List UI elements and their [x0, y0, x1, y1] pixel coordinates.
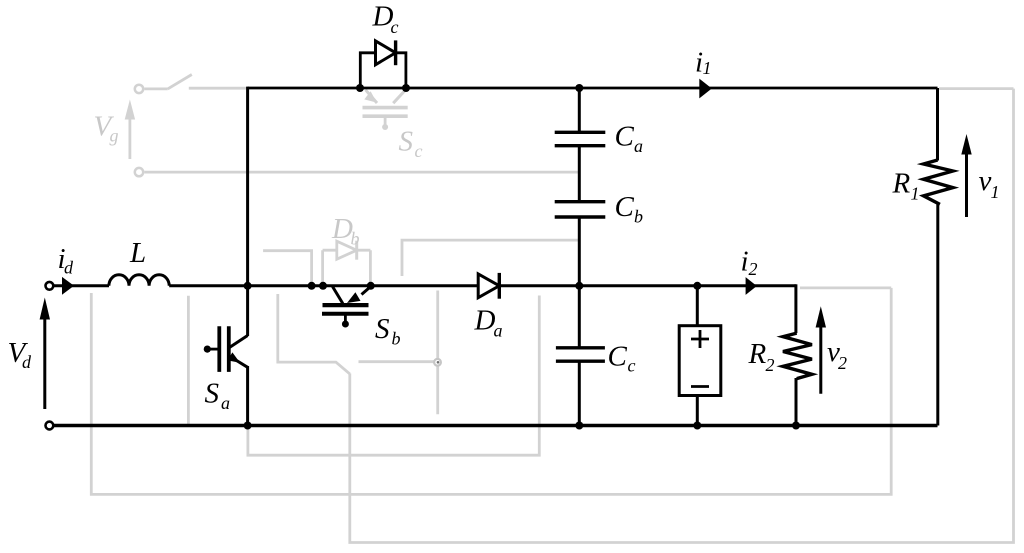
wire input to inductor	[53, 284, 109, 287]
svg-text:R: R	[748, 338, 767, 370]
svg-text:c: c	[415, 141, 423, 161]
node R2 bottom junction	[792, 422, 800, 430]
svg-text:1: 1	[703, 58, 712, 78]
label v2	[827, 336, 847, 373]
transistor Sa	[204, 326, 248, 427]
svg-text:c: c	[628, 355, 636, 375]
svg-text:C: C	[615, 191, 635, 223]
node Dc right junction	[402, 84, 410, 92]
wire gray feedback line #2 (bottom long loop)	[91, 288, 891, 495]
label R2	[748, 338, 775, 375]
capacitor Cc	[556, 286, 605, 427]
label Sa	[205, 378, 231, 414]
wire gray feedback line #1 (inner loop)	[248, 296, 539, 456]
source Vg terminal circle upper	[135, 85, 143, 93]
wire bottom rail	[53, 424, 937, 427]
svg-text:c: c	[391, 17, 399, 37]
wire gray corner above Da	[402, 240, 578, 276]
node capacitor middle junction	[575, 282, 583, 290]
svg-text:2: 2	[838, 353, 847, 373]
wire middle rail left of Da	[169, 284, 478, 287]
svg-text:g: g	[110, 126, 119, 146]
svg-text:1: 1	[911, 183, 920, 203]
label v1	[979, 165, 1000, 202]
wire right vertical (top rail to R1)	[936, 88, 939, 161]
label Vg	[94, 111, 119, 146]
label Ca	[615, 121, 644, 156]
wire top rail	[248, 87, 938, 90]
svg-text:2: 2	[766, 355, 775, 375]
label i1	[695, 47, 712, 79]
transistor Sb	[322, 287, 371, 328]
label Dc	[372, 1, 399, 38]
node Dc left junction	[356, 84, 364, 92]
diode Da	[478, 273, 499, 299]
terminal circle input top	[46, 282, 54, 290]
svg-text:C: C	[615, 121, 635, 153]
node battery bottom junction	[693, 422, 701, 430]
diode Dc	[360, 40, 406, 88]
label Db	[331, 213, 360, 249]
svg-text:b: b	[351, 229, 360, 249]
svg-text:b: b	[392, 329, 401, 349]
svg-text:a: a	[221, 393, 230, 413]
node capacitor top junction	[575, 84, 583, 92]
wire gray from Vg lower terminal	[145, 171, 579, 174]
arrow v1	[961, 134, 971, 217]
svg-text:S: S	[375, 313, 390, 345]
resistor R1	[924, 160, 953, 204]
wire gray jog to node at left of Sb	[263, 251, 312, 282]
svg-text:C: C	[608, 341, 628, 373]
svg-text:d: d	[22, 352, 32, 372]
svg-text:2: 2	[749, 259, 758, 279]
node gray tap circle	[434, 359, 441, 366]
node Sa emitter junction	[244, 422, 252, 430]
label Sb	[375, 313, 401, 349]
source Vd arrow	[40, 298, 50, 410]
wire gray Sb-gate routing	[278, 294, 350, 374]
transistor Sc (gray, inactive)	[363, 90, 408, 131]
wire right vertical (R1 to bottom rail)	[936, 205, 939, 426]
wire gray horizontal into tap circle	[359, 360, 435, 363]
svg-text:S: S	[399, 126, 414, 158]
svg-text:S: S	[205, 378, 220, 410]
node Sb right junction	[367, 282, 375, 290]
arrow i2 current	[746, 277, 757, 295]
wire gray stub left of Sa	[187, 296, 190, 424]
arrow v2	[816, 306, 826, 393]
svg-text:i: i	[741, 246, 749, 278]
label Vd	[8, 337, 33, 372]
label Sc	[399, 126, 423, 162]
label id	[58, 243, 75, 278]
label R1	[892, 168, 920, 204]
arrow id current	[62, 277, 74, 295]
label Cc	[608, 341, 636, 376]
node Sb left junction 1	[308, 282, 316, 290]
wire left vertical from top rail to Sa	[246, 87, 249, 336]
source Vg terminal circle lower	[135, 168, 143, 176]
svg-text:a: a	[634, 136, 643, 156]
svg-text:a: a	[494, 321, 503, 341]
switch blade of Vg	[145, 75, 247, 89]
resistor R2	[783, 284, 812, 427]
node battery top junction	[693, 282, 701, 290]
arrow i1 current	[699, 79, 712, 99]
node capacitor bottom junction	[575, 422, 583, 430]
terminal circle input bottom	[46, 422, 54, 430]
capacitor Cb	[555, 146, 606, 286]
diode Db (gray, inactive)	[323, 241, 371, 283]
svg-text:D: D	[474, 305, 496, 337]
svg-text:R: R	[892, 168, 911, 200]
wire gray feedback line #3 (outer loop)	[350, 89, 1014, 543]
svg-text:d: d	[64, 258, 74, 278]
node Sa collector junction	[244, 282, 252, 290]
label i2	[741, 246, 758, 280]
svg-text:b: b	[634, 206, 643, 226]
battery source	[679, 286, 721, 427]
inductor L	[109, 275, 169, 286]
capacitor Ca	[555, 88, 606, 146]
source Vg arrow	[125, 100, 135, 160]
svg-text:1: 1	[991, 182, 1000, 202]
svg-text:L: L	[129, 237, 146, 269]
node Sb left junction 2	[319, 282, 327, 290]
wire middle rail right of Da	[499, 284, 796, 287]
label Cb	[615, 191, 644, 226]
wire gray vertical with tap circle	[436, 291, 439, 415]
label Da	[474, 305, 503, 341]
